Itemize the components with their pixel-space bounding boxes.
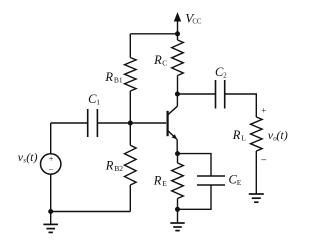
svg-text:R: R — [153, 174, 162, 188]
svg-text:R: R — [153, 53, 162, 67]
svg-text:+: + — [49, 155, 54, 164]
svg-text:(t): (t) — [276, 128, 287, 142]
svg-text:CC: CC — [192, 19, 202, 26]
svg-text:2: 2 — [223, 71, 227, 79]
svg-text:E: E — [237, 178, 242, 187]
svg-text:1: 1 — [96, 97, 100, 106]
svg-text:R: R — [232, 128, 241, 142]
svg-text:C: C — [162, 58, 167, 67]
svg-text:R: R — [105, 159, 114, 173]
svg-text:B1: B1 — [114, 76, 123, 85]
svg-text:(t): (t) — [26, 150, 37, 164]
svg-text:−: − — [261, 155, 267, 167]
svg-text:L: L — [241, 134, 246, 143]
svg-text:E: E — [162, 179, 167, 188]
svg-text:−: − — [48, 164, 53, 174]
svg-text:R: R — [104, 70, 113, 84]
svg-text:+: + — [261, 105, 266, 115]
svg-text:B2: B2 — [114, 164, 123, 173]
